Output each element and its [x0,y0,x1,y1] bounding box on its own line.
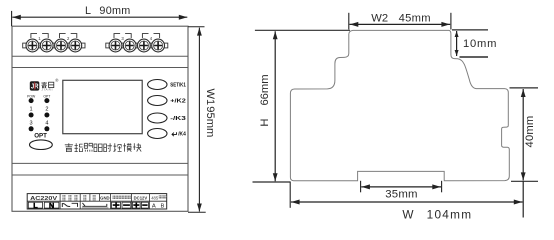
dimension 40mm extension top [510,87,539,89]
LED indicator r2c1 [29,113,34,118]
svg-text:L: L [33,201,38,210]
svg-text:L: L [85,5,91,17]
svg-text:104mm: 104mm [427,208,473,222]
OPT button label [34,133,47,140]
terminal screw T8 [152,39,165,52]
dimension 40mm text [524,116,536,148]
terminal clamp tabs [23,43,168,48]
sensor bar symbol [82,203,109,209]
svg-text:10mm: 10mm [463,38,497,50]
OPT button [30,140,53,150]
dimension 40mm extension bottom [511,180,538,182]
left view: case step line lower A (panel bottom) [12,162,188,164]
dimension L 90mm line [12,15,187,20]
LED number label 1 [30,107,33,113]
dc plus terminal [132,202,140,208]
svg-text:40mm: 40mm [524,116,536,148]
bottom reference extension line [253,181,291,183]
function button K1 [148,80,167,90]
dimension W1 95mm extension bottom [188,211,206,213]
svg-text:W2: W2 [371,12,388,24]
svg-text:2: 2 [45,107,48,113]
LED indicator r1c1 [29,98,34,103]
LED number label 2 [45,107,48,113]
dimension W1 95mm text [204,89,216,138]
dimension 10mm line [455,31,459,56]
LED column header OPT [43,94,50,98]
terminal screw T7 [138,39,151,52]
relay contact pair label 4 [142,34,159,42]
dimension W2 45mm text [371,12,431,24]
LED column header POW [27,94,36,98]
label DC12V [134,196,148,201]
svg-text:3: 3 [30,121,33,127]
terminal L [28,201,42,210]
relay contact pair label 3 [114,34,131,42]
dimension 10mm extension top [452,29,488,31]
dimming minus terminal [122,202,131,208]
svg-text:GND: GND [100,196,110,201]
svg-text:POW: POW [27,94,36,98]
dimension 35mm extension ticks [361,181,442,193]
terminal screw T6 [123,39,136,52]
side profile outline [290,30,509,180]
svg-text:45mm: 45mm [399,12,431,24]
dimension W2 45mm extension ticks [349,13,451,30]
svg-text:SET/K1: SET/K1 [170,82,186,88]
product title hanzi row [65,143,141,151]
svg-text:OPT: OPT [43,94,50,98]
svg-text:JIARI: JIARI [41,88,53,92]
dimension 10mm text [463,38,497,50]
svg-text:N: N [49,201,54,210]
button label return/K4 [172,131,186,137]
svg-text:B: B [160,203,164,209]
terminal screw T2 [40,39,53,52]
LED indicator r3c1 [29,126,34,131]
brand logo JR block [30,81,40,90]
dimension W 104mm extension right [522,182,524,218]
svg-text:35mm: 35mm [385,189,417,201]
svg-text:DC12V: DC12V [134,196,148,201]
dimension W 104mm extension left [289,182,291,208]
svg-text:66mm: 66mm [259,74,271,105]
svg-text:485: 485 [151,195,159,200]
relay contact pair label 1 [31,34,48,42]
brand logo registered mark [55,78,59,83]
terminal strip frame [27,194,167,209]
svg-text:1: 1 [30,107,33,113]
dimension W1 95mm line [197,28,202,212]
terminal screw T5 [109,39,122,52]
LED number label 3 [30,121,33,127]
function button K3 [148,113,167,123]
top reference extension line [255,29,350,31]
dc minus terminal [141,202,148,208]
sensor cell 2 tiny hanzi [93,195,96,201]
label AC220V [30,196,57,202]
dimming output cell tiny hanzi [113,196,131,199]
button label +/K2 [170,98,186,104]
dimension 35mm line [361,184,441,189]
dimension L 90mm extension line left [11,11,13,26]
label GND [100,196,110,201]
svg-text:4: 4 [45,121,48,127]
left view: module front outline [12,26,188,211]
svg-text:/K4: /K4 [178,131,186,137]
dimension W2 45mm line [350,22,451,27]
LCD screen window [63,80,142,133]
sensor cell 1 tiny hanzi [83,195,86,201]
terminal screw T3 [55,39,68,52]
terminal screw T1 [26,39,39,52]
dimension W 104mm line [291,200,523,205]
left view: case step line lower B [12,174,188,176]
svg-text:A: A [152,203,156,209]
svg-text:OPT: OPT [34,133,47,140]
left view: case step line upper A [12,55,188,57]
LED indicator r1c2 [44,98,49,103]
svg-text:W1: W1 [204,89,216,106]
dimension H 66mm text [259,74,271,126]
dimming plus terminal [112,202,121,208]
fire-signal switch symbol [62,203,77,207]
svg-text:+/K2: +/K2 [170,98,186,104]
dimension H 66mm line [273,31,278,181]
relay contact pair label 2 [60,34,77,42]
dimension W 104mm text [402,208,472,222]
button label SET/K1 [170,82,186,88]
brand logo hanzi [41,82,53,88]
rs485 terminal A B [152,203,165,209]
LED number label 4 [45,121,48,127]
dimension 10mm extension bottom [460,56,489,58]
dimension L 90mm text [85,5,131,17]
LED indicator r3c2 [44,126,49,131]
LED indicator r2c2 [44,113,49,118]
svg-text:H: H [259,119,271,127]
button label -/K3 [170,116,186,122]
left view: case step line upper B (panel top) [12,67,188,69]
svg-text:95mm: 95mm [204,106,216,137]
dimension W1 95mm extension top [188,26,205,28]
svg-text:W: W [402,208,414,222]
brand logo JIARI caption [41,88,53,92]
terminal screw T4 [69,39,82,52]
terminal N [44,201,59,210]
function button K2 [148,96,167,106]
dimension 40mm line [521,89,526,180]
function button K4 [148,129,167,139]
svg-text:90mm: 90mm [99,5,130,17]
svg-text:-/K3: -/K3 [170,116,186,122]
rs485 cell label 485+hanzi [151,195,166,200]
terminal strip cell borders [27,194,167,209]
fire-signal input cell tiny hanzi [62,195,77,201]
dimension 35mm text [385,189,417,201]
